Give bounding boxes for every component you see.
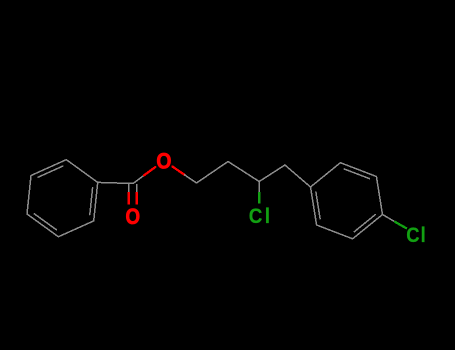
ester bond C-O gray half [133,175,144,183]
ring-Cl2 bond green half [395,222,406,228]
bond O-CH2 gray half [185,175,197,183]
inner double line bottom-left edge [34,214,56,230]
ring-Cl2 bond gray half [383,215,396,222]
inner double line bottom-right edge [354,215,375,232]
C=O double bond gray halves [128,185,130,193]
C=O double bond red halves [128,192,131,204]
inner double line top-left edge [38,166,63,177]
inner double line right edge [90,188,93,215]
svg-text:Cl: Cl [249,205,273,228]
chain CH2-CHCl [228,162,259,182]
bond ring to carbonyl C [98,182,133,183]
right benzene ring [311,163,383,239]
inner double line top edge [344,169,369,179]
chain CH2-CH2 [197,162,229,184]
chain CH2-ring [285,165,311,187]
chain CHCl-CH2 [259,165,285,182]
svg-text:Cl: Cl [406,224,426,247]
bond O-CH2 red half [173,167,185,175]
inner double line left edge [316,192,320,219]
ester bond C-O red half [144,167,155,175]
svg-text:O: O [156,149,171,173]
svg-text:O: O [126,206,141,230]
C-Cl bond gray half [258,182,260,193]
left benzene ring [27,160,98,237]
C-Cl bond green half [258,192,260,204]
